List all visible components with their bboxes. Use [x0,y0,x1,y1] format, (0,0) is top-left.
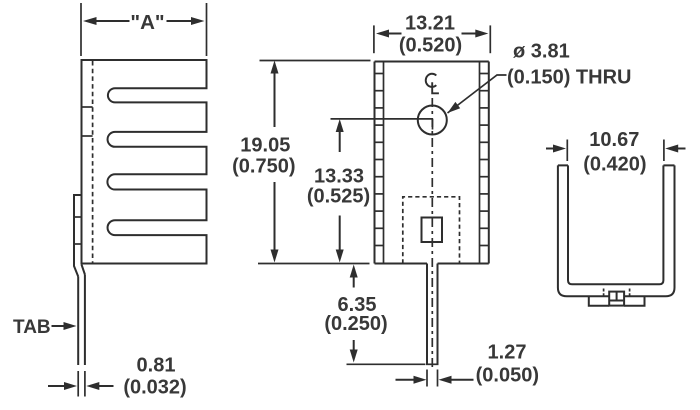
svg-text:(0.150) THRU: (0.150) THRU [507,67,631,89]
left view: flange serration tick at y=136 [82,135,93,137]
left view: heatsink side profile outline with fins [82,60,207,264]
right view: serration dashes at bottom [604,289,630,297]
left view: tab shoulder serration tick at y=244 [74,243,82,245]
middle view: body outline [375,62,489,264]
left view: inner bend dashed line [92,61,94,263]
dimension 1.27: arrows [396,379,416,381]
svg-text:(0.525): (0.525) [307,186,370,208]
middle view: lead right edge [437,264,439,365]
dimension 19.05: extension lines [260,60,371,62]
right view: wall top caps [558,164,675,166]
dimension 13.33: extension line to hole center [331,118,434,120]
left view: tab shoulder serration tick at y=217 [74,216,82,218]
svg-text:TAB: TAB [13,317,51,338]
svg-text:(0.750): (0.750) [232,156,295,178]
hole callout arrowhead [448,102,461,113]
right view: tab end clip [609,292,624,306]
svg-text:ø 3.81: ø 3.81 [513,41,570,63]
middle view: die pad square [422,218,443,243]
dimension 13.21: arrows [376,30,389,38]
left view: flange serration tick at y=107 [82,106,93,108]
dimension 13.21: extension lines [373,25,375,53]
dimension 0.81: arrows [48,385,66,387]
middle view: hole center stub [432,119,434,130]
middle view: right flange inner line [479,62,481,264]
dimension 0.81: extension lines below tab [77,371,79,397]
svg-text:(0.250): (0.250) [324,313,387,335]
middle view: lead left edge [426,264,428,365]
svg-text:10.67: 10.67 [589,129,639,151]
middle view: mounting hole [418,106,447,135]
svg-text:(0.520): (0.520) [399,35,462,57]
left view: tab shoulder step [74,195,85,277]
TAB leader arrow [52,325,66,327]
dimension 13.33: arrows [336,119,344,132]
svg-text:(0.420): (0.420) [583,154,646,176]
svg-text:"A": "A" [130,11,164,34]
right view: U channel inner profile [568,165,663,284]
dimension 1.27: extension lines below lead [426,370,428,387]
middle view: hidden transistor body dashed rect [403,197,460,264]
middle view: left flange serration ticks [375,74,384,246]
dimension 6.35: arrows [350,265,358,278]
svg-text:(0.050): (0.050) [476,365,539,387]
middle view: vertical centerline dashed [431,98,433,368]
right view: U channel outer profile [558,165,675,296]
hole callout leader line [448,75,507,113]
dimension "A": extension lines [80,3,82,56]
svg-text:13.33: 13.33 [314,166,364,188]
dimension 6.35: lower extension line at lead tip [347,363,426,365]
middle view: left flange inner line [383,62,385,264]
svg-text:1.27: 1.27 [488,342,527,364]
middle view: centerline symbol [426,74,437,87]
middle view: lead tip cap [426,363,439,365]
dimension 19.05: arrows [271,61,279,74]
left view: tab strip [78,275,85,366]
right view: foot plate [589,296,645,306]
svg-text:19.05: 19.05 [240,135,290,157]
middle view: right flange serration ticks [480,74,489,246]
dimension 10.67: extension lines [566,140,568,162]
svg-text:13.21: 13.21 [405,13,455,35]
dimension "A": arrows and line [83,17,97,25]
svg-text:(0.032): (0.032) [123,377,186,399]
svg-text:0.81: 0.81 [137,355,176,377]
dimension 10.67: arrows [546,148,555,150]
